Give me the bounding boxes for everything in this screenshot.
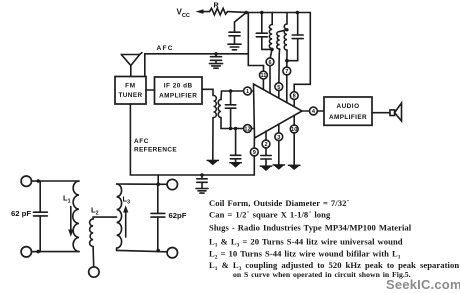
capacitor 62pF right: [157, 184, 159, 213]
capacitor (pin1-pin12): [230, 91, 232, 104]
node left tank top: [260, 11, 264, 15]
node right tank top: [296, 11, 300, 15]
svg-text:L2 = 10 Turns S-44 litz wire w: L2 = 10 Turns S-44 litz wire wound bifil…: [209, 249, 401, 261]
wire top rail: [246, 13, 310, 92]
wire to AFC ref line: [157, 175, 159, 184]
pin 3: [275, 133, 283, 141]
terminal L2: [89, 267, 99, 277]
svg-text:Coil Form, Outside Diameter =: Coil Form, Outside Diameter = 7/32": [209, 198, 350, 208]
wire L2 top to L3: [93, 217, 117, 219]
svg-text:12: 12: [244, 127, 250, 133]
svg-text:SeekIC.com: SeekIC.com: [386, 277, 460, 292]
node bypass branch: [234, 127, 238, 131]
node AFC cap: [214, 52, 218, 56]
wire to right cap: [287, 39, 298, 61]
svg-text:AMPLIFIER: AMPLIFIER: [159, 93, 197, 100]
wire: [228, 11, 247, 14]
node ref cap: [200, 173, 204, 177]
wire B bottom to pin 5: [278, 49, 281, 83]
label L1: [63, 194, 71, 205]
capacitor 62pF left: [39, 181, 41, 212]
pin 7: [286, 61, 288, 67]
terminal bottom left: [21, 247, 31, 257]
svg-text:REFERENCE: REFERENCE: [134, 147, 177, 154]
svg-text:Slugs - Radio Industries Type: Slugs - Radio Industries Type MP34/MP100…: [209, 223, 412, 233]
L1 arrow: [70, 207, 72, 232]
label L3: [123, 195, 131, 206]
ground (arrow type): [229, 162, 242, 168]
svg-text:L1 & L3 = 20 Turns S-44 litz w: L1 & L3 = 20 Turns S-44 litz wire univer…: [209, 237, 403, 249]
capacitor (Vcc decoupling): [229, 31, 240, 33]
node: [156, 249, 160, 253]
svg-text:TUNER: TUNER: [118, 92, 142, 99]
wire L3 bottom: [117, 250, 168, 251]
wire pin7 to amp: [286, 75, 288, 103]
capacitor (ref): [201, 175, 203, 178]
svg-text:1: 1: [246, 89, 249, 95]
label AFC REFERENCE: [134, 138, 177, 154]
svg-text:Can = 1/2" square X 1-1/8" lon: Can = 1/2" square X 1-1/8" long: [209, 210, 331, 220]
inductor L1: [73, 181, 79, 252]
label 62 pF: [11, 209, 31, 218]
svg-text:62 pF: 62 pF: [11, 209, 31, 218]
wire AFC reference loop: [130, 104, 254, 175]
wire pin8 stub: [293, 100, 295, 107]
label L2: [91, 206, 99, 217]
ground (bar type): [210, 63, 223, 65]
wire IF out: [202, 89, 213, 95]
node: [36, 179, 40, 183]
L3 arrow: [125, 211, 127, 237]
ground (arrow type): [273, 164, 286, 170]
inductor L2: [90, 219, 94, 247]
svg-text:on S curve when operated in ci: on S curve when operated in circuit show…: [233, 270, 411, 279]
pin 12: [244, 125, 252, 133]
wire to pin 6: [270, 49, 272, 58]
ground (arrow type): [260, 165, 273, 171]
audio amplifier box: [324, 97, 372, 125]
terminal top right: [167, 179, 177, 189]
pin 6: [266, 58, 274, 66]
ground (arrow type): [207, 160, 220, 166]
node coupling cap top: [229, 89, 233, 93]
svg-text:AUDIO: AUDIO: [336, 103, 359, 110]
wire pin11 stub: [262, 79, 264, 90]
label AFC: [157, 45, 174, 52]
label 62pF: [169, 211, 187, 220]
transformer primary: [214, 96, 217, 118]
terminal bottom right: [167, 248, 177, 258]
Vcc label: [177, 8, 190, 19]
svg-text:AFC: AFC: [134, 138, 149, 145]
svg-text:AFC: AFC: [157, 45, 174, 52]
wire secondary bottom to pin 12: [221, 118, 244, 129]
pin 8: [290, 92, 298, 100]
node bottom: [36, 250, 40, 254]
wire B top tap: [280, 30, 287, 32]
wire bottom: [38, 251, 79, 253]
inductor (left tank coil): [271, 13, 273, 25]
ground (bar type): [228, 43, 241, 45]
inductor (quad coil B): [277, 32, 280, 50]
Vcc arrow: [196, 9, 204, 14]
svg-text:L2: L2: [91, 206, 99, 217]
wire pin5 stub: [278, 91, 280, 99]
ground (bar type): [196, 188, 208, 190]
transformer secondary: [218, 100, 221, 118]
wire FM to IF: [146, 89, 155, 91]
capacitor (pin12 bypass): [235, 129, 237, 155]
node pin7 junction: [285, 59, 289, 63]
svg-text:VCC: VCC: [177, 8, 190, 19]
wire diagonal to decoupling cap: [235, 13, 247, 32]
svg-text:R: R: [214, 1, 220, 10]
antenna: [121, 53, 142, 55]
inductor (quad coil C): [286, 13, 288, 25]
wire top: [38, 180, 79, 182]
pin 11: [260, 71, 268, 79]
capacitor (right tank): [292, 38, 303, 40]
svg-text:IF 20 dB: IF 20 dB: [164, 83, 193, 90]
svg-text:AMPLIFIER: AMPLIFIER: [329, 114, 367, 121]
ground (arrow type): [288, 165, 301, 170]
svg-text:L3: L3: [123, 195, 131, 206]
notes text block: [209, 198, 459, 279]
speaker: [390, 110, 395, 116]
label R: [214, 1, 220, 10]
pin 4 output: [302, 110, 310, 112]
svg-text:FM: FM: [125, 83, 136, 90]
wire: [203, 11, 210, 13]
node Vcc junction: [245, 11, 249, 15]
capacitor (left tank): [261, 13, 263, 33]
pin 10: [290, 125, 298, 133]
svg-text:62pF: 62pF: [169, 211, 187, 220]
wire pin6 to amp: [269, 66, 271, 94]
pin 5: [275, 83, 283, 91]
capacitor (pin2): [265, 148, 267, 155]
node tap: [285, 28, 288, 31]
svg-text:L1: L1: [63, 194, 71, 205]
wire L2 bottom: [92, 247, 95, 267]
op-amp triangle (IC): [254, 84, 303, 138]
node: [156, 182, 160, 186]
wire AFC line: [145, 54, 249, 77]
pin 9: [253, 138, 255, 148]
node coupling cap bottom: [229, 127, 233, 131]
FM tuner box: [115, 77, 146, 105]
pin 2: [262, 140, 270, 148]
inductor L3: [117, 184, 122, 248]
wire secondary top to pin 1: [221, 91, 244, 100]
IF amplifier box: [155, 77, 203, 104]
node tank bottom: [270, 48, 274, 52]
wire to speaker: [372, 112, 390, 114]
wire from Vcc node down to pin 11: [248, 13, 263, 72]
wire L3 top: [117, 183, 168, 185]
L1 tank: terminal top left: [21, 176, 31, 186]
pin 1: [244, 87, 252, 95]
resistor R: [210, 8, 228, 15]
capacitor (AFC bypass): [215, 54, 217, 57]
